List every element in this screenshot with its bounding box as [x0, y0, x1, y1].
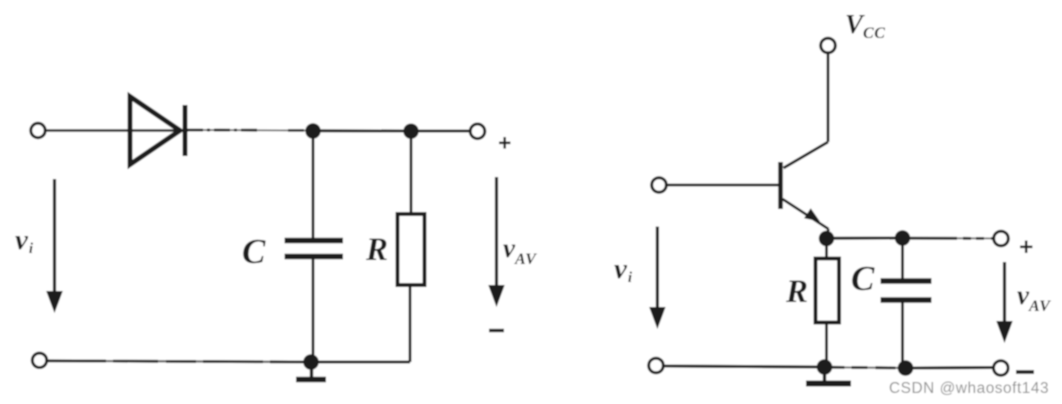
svg-text:C: C	[242, 232, 266, 271]
svg-text:R: R	[785, 274, 808, 310]
svg-text:CSDN @whaosoft143: CSDN @whaosoft143	[889, 380, 1049, 397]
svg-text:C: C	[851, 259, 875, 298]
svg-text:R: R	[365, 232, 388, 268]
